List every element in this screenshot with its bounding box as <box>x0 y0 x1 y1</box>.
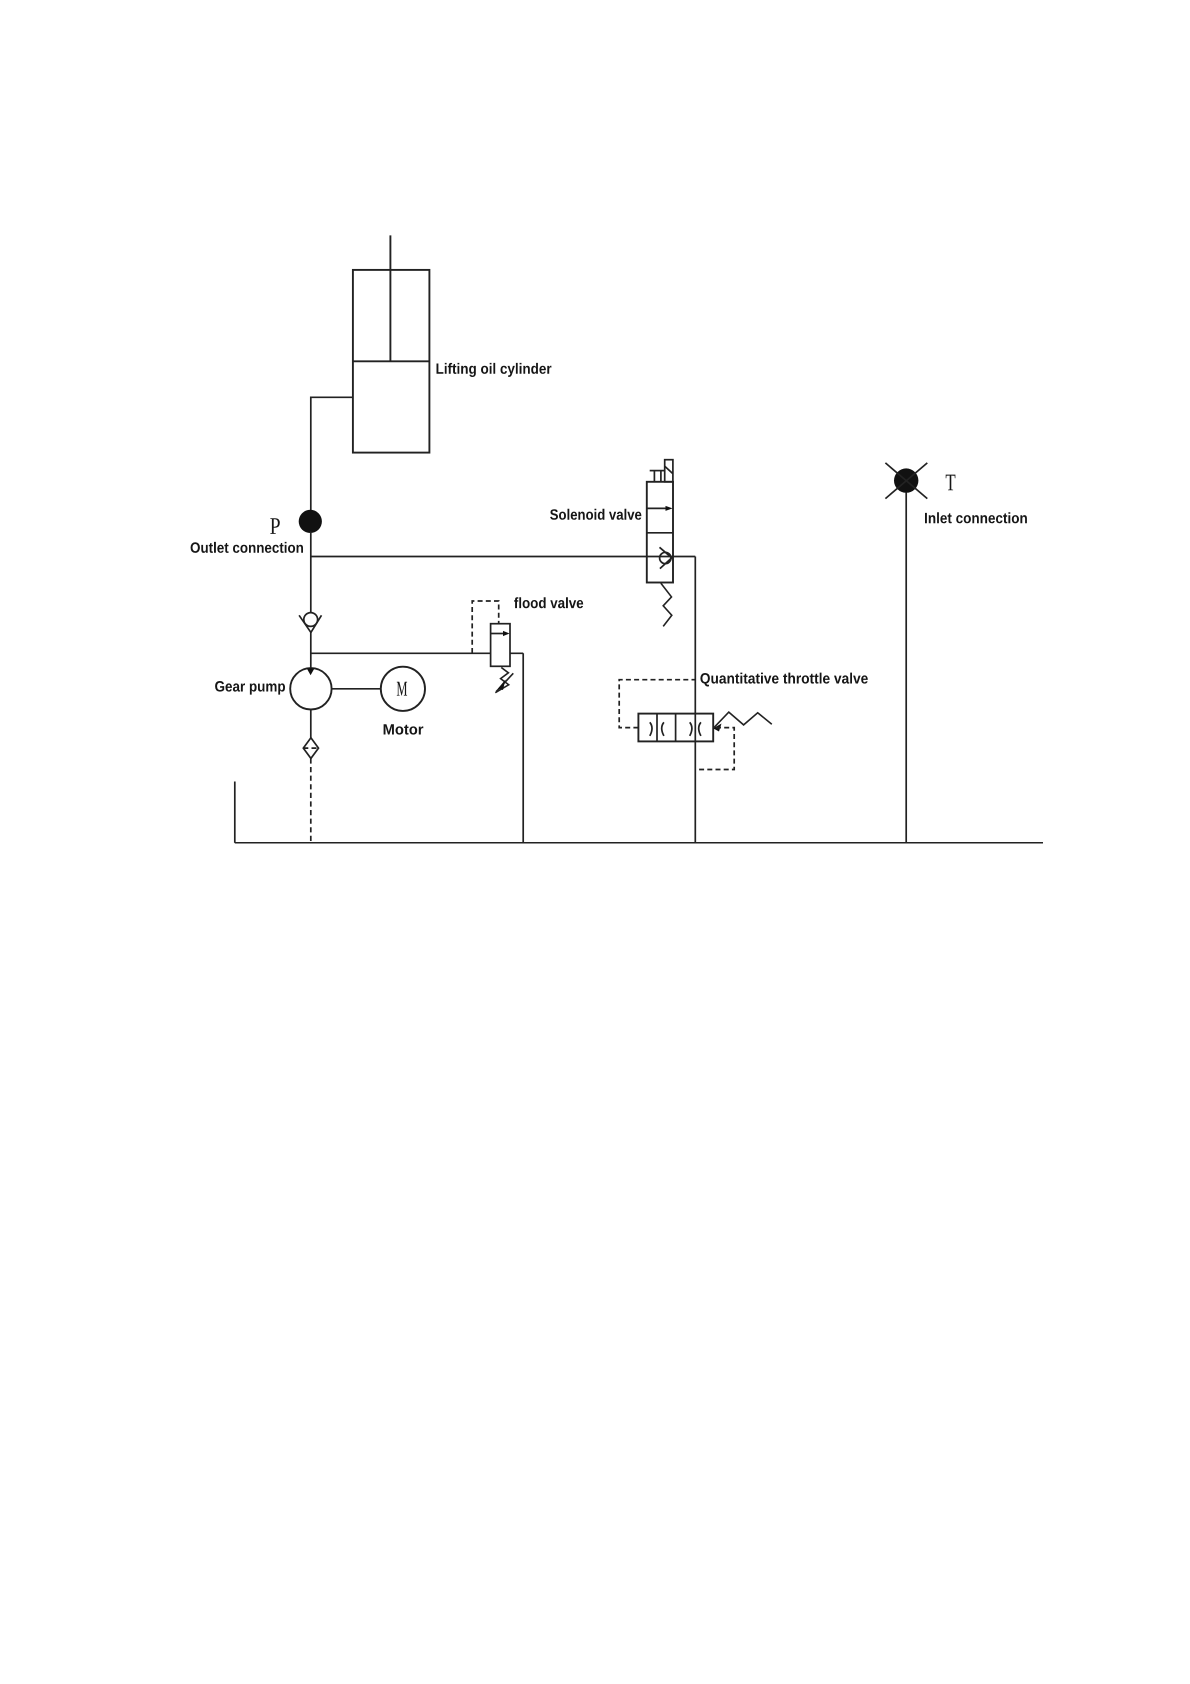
flood valve arrow <box>491 633 504 635</box>
node T cross lines <box>885 463 927 499</box>
solenoid internal check valve <box>660 552 671 563</box>
tank left edge tick <box>234 782 236 843</box>
wire check valve to pump <box>310 633 312 669</box>
throttle orifice arcs position 2 <box>690 722 692 736</box>
flood valve spring <box>495 668 508 693</box>
solenoid coil diagonal <box>665 466 673 473</box>
check valve circle <box>304 613 318 627</box>
label Solenoid valve <box>550 509 641 520</box>
solenoid valve body <box>647 482 673 583</box>
throttle pilot dashed right <box>695 728 734 770</box>
solenoid coil box <box>665 460 673 482</box>
flood valve adjust arrow <box>496 673 513 691</box>
node P black dot <box>299 510 322 533</box>
flood valve pilot dashed line <box>472 601 499 653</box>
pump-motor shaft wire <box>332 688 381 690</box>
wire pump to filter <box>310 710 312 738</box>
node T black dot <box>894 468 918 492</box>
label Quantitative throttle valve <box>700 673 867 687</box>
throttle valve divider 1 <box>656 714 658 742</box>
label Lifting oil cylinder <box>437 363 552 377</box>
throttle orifice arcs position 1 <box>650 722 652 736</box>
inlet wire to tank <box>905 493 907 843</box>
cylinder port wire <box>311 397 353 510</box>
label Gear pump <box>215 681 285 695</box>
wire P dot to junction <box>310 532 312 613</box>
throttle valve divider 2 <box>675 714 677 742</box>
gear pump inlet arrow <box>307 668 315 675</box>
vertical wire to tank <box>694 557 696 843</box>
check valve seat <box>299 615 321 632</box>
label M motor letter <box>397 682 407 696</box>
throttle pilot dashed left <box>619 680 695 728</box>
piston rod <box>389 235 391 361</box>
motor circle <box>381 667 425 711</box>
flood valve outlet wire <box>522 653 524 843</box>
label Outlet connection <box>191 542 303 553</box>
dashed suction line <box>310 758 312 842</box>
filter diamond <box>303 738 318 759</box>
wire junction to flood valve <box>311 652 523 654</box>
lifting oil cylinder body <box>353 270 430 453</box>
tank line <box>235 842 1043 844</box>
flood valve body <box>491 624 510 667</box>
solenoid valve spring <box>661 583 672 626</box>
gear pump circle <box>290 668 331 709</box>
label T <box>946 475 956 491</box>
label flood valve <box>514 597 583 608</box>
label Inlet connection <box>925 512 1027 523</box>
filter dashed element <box>303 747 318 749</box>
solenoid valve divider 1 with arrow <box>647 507 667 509</box>
throttle valve body <box>638 714 713 742</box>
solenoid override bars <box>650 470 665 472</box>
label Motor <box>384 724 424 734</box>
solenoid valve divider 2 <box>647 532 673 534</box>
label P <box>270 518 280 534</box>
wire junction P to solenoid valve <box>311 556 696 558</box>
piston line <box>353 360 430 362</box>
throttle valve spring <box>714 712 772 728</box>
